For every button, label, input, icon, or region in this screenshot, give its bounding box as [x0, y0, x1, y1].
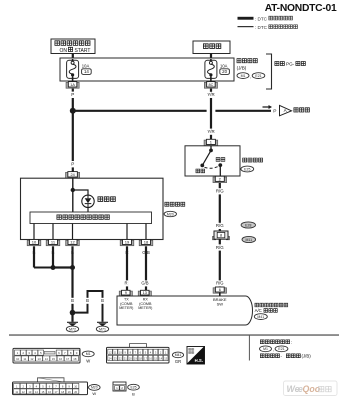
- svg-text:START: START: [75, 48, 91, 54]
- wire B pin12 down: [71, 246, 73, 267]
- stub pin18: [145, 224, 147, 240]
- wire G/B pin18 to RX: [140, 246, 150, 290]
- svg-text:(J/B): (J/B): [237, 65, 247, 70]
- svg-text:,: ,: [273, 347, 274, 352]
- svg-text:GR: GR: [175, 359, 181, 364]
- svg-text:: DTC: : DTC: [255, 25, 268, 30]
- svg-text:M72: M72: [69, 327, 76, 331]
- pin 10: [27, 240, 41, 246]
- TX label: [119, 298, 133, 310]
- next page arrow marker: [263, 105, 273, 109]
- junction B1: [51, 265, 56, 270]
- junction to indicator: [71, 188, 88, 195]
- footer reference text: [260, 340, 312, 359]
- unified meter amp label: [254, 303, 287, 319]
- svg-text:M41: M41: [175, 353, 182, 357]
- svg-text:E25: E25: [244, 167, 250, 171]
- svg-text:M20: M20: [167, 212, 174, 216]
- RX label: [138, 298, 152, 310]
- svg-text:16: 16: [48, 390, 51, 394]
- svg-text:SW: SW: [217, 302, 224, 307]
- inline connector M11/E28: [213, 231, 230, 240]
- svg-text:M20: M20: [91, 386, 98, 390]
- pin 6 unified meter: [213, 287, 226, 293]
- svg-text:PG-: PG-: [286, 61, 295, 66]
- connector ovals E28 M11: [241, 222, 256, 243]
- label released: [196, 169, 205, 173]
- title AT-NONDTC-01: [265, 3, 337, 14]
- svg-text:Y/R: Y/R: [207, 129, 214, 134]
- fuse F14 10A: [67, 59, 79, 81]
- svg-text:8: 8: [220, 234, 222, 238]
- footer connector M1 face: [13, 348, 80, 363]
- svg-text:(J/B): (J/B): [302, 354, 312, 359]
- svg-text:M1: M1: [263, 347, 268, 351]
- fuse box annotation: [237, 59, 265, 80]
- stub pin6: [219, 293, 221, 296]
- unified meter control unit box: [30, 212, 152, 224]
- wire P fuse to junction: [70, 89, 75, 111]
- legend thin line (DTC non-detectable): [238, 25, 298, 30]
- svg-text:14: 14: [84, 69, 89, 74]
- svg-text:P: P: [71, 92, 74, 97]
- pin 18: [139, 240, 153, 246]
- pin 9 TX: [119, 290, 132, 296]
- svg-text:E21: E21: [278, 347, 284, 351]
- svg-text:A/C: A/C: [255, 308, 262, 313]
- svg-text:10: 10: [16, 357, 20, 361]
- svg-text:AT-NONDTC-01: AT-NONDTC-01: [265, 3, 337, 14]
- see PG-POWER bracket: [266, 54, 305, 89]
- label B pin10: [33, 250, 36, 255]
- stub pin11: [52, 224, 54, 240]
- pin 1 brake switch: [204, 139, 218, 145]
- fuse F20 10A: [205, 59, 217, 81]
- svg-text:17: 17: [55, 390, 58, 394]
- svg-text:6: 6: [219, 288, 221, 292]
- svg-text:18: 18: [73, 357, 77, 361]
- svg-text:M71: M71: [99, 327, 106, 331]
- label pressed: [216, 158, 225, 162]
- junction node P: [70, 108, 76, 114]
- svg-text:11: 11: [15, 390, 18, 394]
- footer M41 oval: [172, 352, 183, 364]
- wire inside meter: [72, 178, 74, 212]
- svg-text:10: 10: [32, 240, 37, 245]
- svg-text:G/B: G/B: [141, 281, 148, 286]
- svg-text:18: 18: [144, 240, 149, 245]
- footer E25 oval: [128, 384, 140, 396]
- label G/B pin18: [142, 250, 150, 255]
- H.S. disconnect symbol: [187, 347, 205, 365]
- ground junction node: [70, 310, 76, 316]
- svg-text:10A: 10A: [220, 64, 228, 69]
- svg-text:METER): METER): [138, 306, 152, 310]
- legend thick line (DTC detectable): [238, 16, 293, 21]
- svg-text:19: 19: [125, 240, 130, 245]
- svg-text:ON: ON: [60, 48, 68, 54]
- svg-text:B: B: [86, 298, 89, 303]
- wire R pin19 to TX: [124, 246, 129, 290]
- wire Y/R fuse20 down: [204, 82, 217, 140]
- wire battery to fuse box: [210, 54, 212, 60]
- svg-text:15: 15: [52, 357, 56, 361]
- ground M71: [96, 322, 108, 332]
- pin 13 RX: [138, 290, 151, 296]
- brake switch contacts: [200, 146, 222, 176]
- svg-text:E25: E25: [130, 385, 136, 389]
- fuse F20 labels: [220, 64, 230, 75]
- svg-text:14: 14: [45, 357, 49, 361]
- footer connector E25 face: [113, 382, 126, 391]
- svg-text:P: P: [273, 108, 276, 114]
- svg-text:R: R: [124, 281, 127, 286]
- wire P junction to next page: [73, 110, 271, 112]
- svg-text:24: 24: [70, 173, 74, 177]
- footer connector M20 face: [13, 378, 88, 395]
- svg-text:10A: 10A: [82, 64, 90, 69]
- pin 2 brake switch: [213, 176, 227, 182]
- svg-text:12: 12: [30, 357, 34, 361]
- svg-text:16: 16: [59, 357, 63, 361]
- svg-text:M1: M1: [86, 352, 91, 356]
- junction B2: [53, 265, 75, 270]
- ignition switch condition box: [51, 39, 95, 54]
- svg-text:METER): METER): [119, 306, 133, 310]
- svg-text:P: P: [71, 162, 74, 167]
- next page connector A: [273, 105, 309, 115]
- svg-text:8C: 8C: [208, 83, 213, 87]
- footer M20 oval: [89, 385, 101, 397]
- svg-text:R/G: R/G: [216, 245, 224, 250]
- indicator label: [98, 197, 115, 202]
- svg-text:M11: M11: [246, 238, 253, 242]
- stub pin19: [126, 224, 128, 240]
- meter label: [164, 202, 185, 216]
- svg-text:14: 14: [35, 390, 38, 394]
- wire R/G connector to brake sw pin: [215, 239, 225, 287]
- svg-text::: :: [291, 340, 292, 345]
- BRAKE SW label: [213, 297, 227, 307]
- svg-text:R/G: R/G: [216, 189, 224, 194]
- wire P junction to meter: [70, 111, 75, 172]
- svg-text:Qoo: Qoo: [303, 384, 321, 394]
- unified meter and A/C amp box: [117, 296, 253, 325]
- wire ignition to fuse box: [72, 54, 74, 60]
- svg-text:B: B: [71, 298, 74, 303]
- svg-text:18: 18: [61, 390, 64, 394]
- svg-text:9: 9: [125, 291, 127, 295]
- label B pin11: [52, 250, 55, 255]
- pin 19: [120, 240, 134, 246]
- svg-text:B: B: [101, 298, 104, 303]
- svg-text:: DTC: : DTC: [255, 16, 268, 21]
- branch wire to M71 ground: [73, 291, 105, 322]
- svg-text:20: 20: [222, 69, 227, 74]
- indicator lamp (check): [82, 195, 94, 207]
- svg-text:15: 15: [41, 390, 44, 394]
- svg-text:13: 13: [28, 390, 31, 394]
- ground M72: [66, 322, 78, 332]
- svg-text:19: 19: [68, 390, 71, 394]
- wire R/G switch to connector: [215, 183, 225, 231]
- svg-text:13: 13: [38, 357, 42, 361]
- wire B to ground junction: [70, 268, 75, 322]
- wire indicator to control unit: [87, 208, 89, 213]
- pin 11: [46, 240, 60, 246]
- svg-text:M41: M41: [257, 315, 264, 319]
- label R pin19: [125, 250, 128, 255]
- svg-text:1A: 1A: [70, 83, 75, 87]
- pin 24 meter top: [66, 172, 80, 179]
- svg-text:H.S.: H.S.: [195, 358, 203, 363]
- svg-text:12: 12: [22, 390, 25, 394]
- footer M1 oval: [82, 351, 94, 364]
- svg-text:E28: E28: [245, 223, 251, 227]
- stub pin10: [33, 224, 35, 240]
- combination meter box: [21, 178, 164, 239]
- svg-text:11: 11: [23, 357, 26, 361]
- battery box: [193, 41, 230, 54]
- pin 12: [66, 240, 80, 246]
- svg-text:,: ,: [250, 74, 251, 79]
- svg-text:Y/R: Y/R: [207, 92, 214, 97]
- svg-text:E21: E21: [255, 74, 261, 78]
- wire B pin11 down: [52, 246, 54, 267]
- brake switch box: [185, 146, 240, 176]
- footer vertical divider: [248, 335, 250, 361]
- svg-text:17: 17: [66, 357, 70, 361]
- svg-text:M1: M1: [241, 74, 246, 78]
- svg-text:R/G: R/G: [216, 281, 223, 286]
- fuse F14 labels: [82, 64, 92, 75]
- fuse box J/B outline: [60, 58, 234, 81]
- svg-text:R/G: R/G: [216, 223, 224, 228]
- svg-text:B: B: [132, 391, 135, 396]
- stub pin12: [72, 224, 74, 240]
- svg-text:10: 10: [74, 384, 77, 388]
- svg-text:20: 20: [74, 390, 77, 394]
- pin 1A below fuse 14: [66, 82, 79, 89]
- svg-text:W: W: [86, 359, 90, 364]
- footer connector M41 face: [107, 344, 170, 363]
- brake switch label: [241, 158, 263, 172]
- footer separator line: [9, 334, 339, 336]
- wire B pin10 down: [34, 246, 53, 267]
- svg-text:12: 12: [70, 240, 75, 245]
- watermark: [284, 381, 338, 396]
- svg-text:W: W: [92, 391, 96, 396]
- svg-text:13: 13: [143, 291, 147, 295]
- label B pin12: [71, 250, 74, 255]
